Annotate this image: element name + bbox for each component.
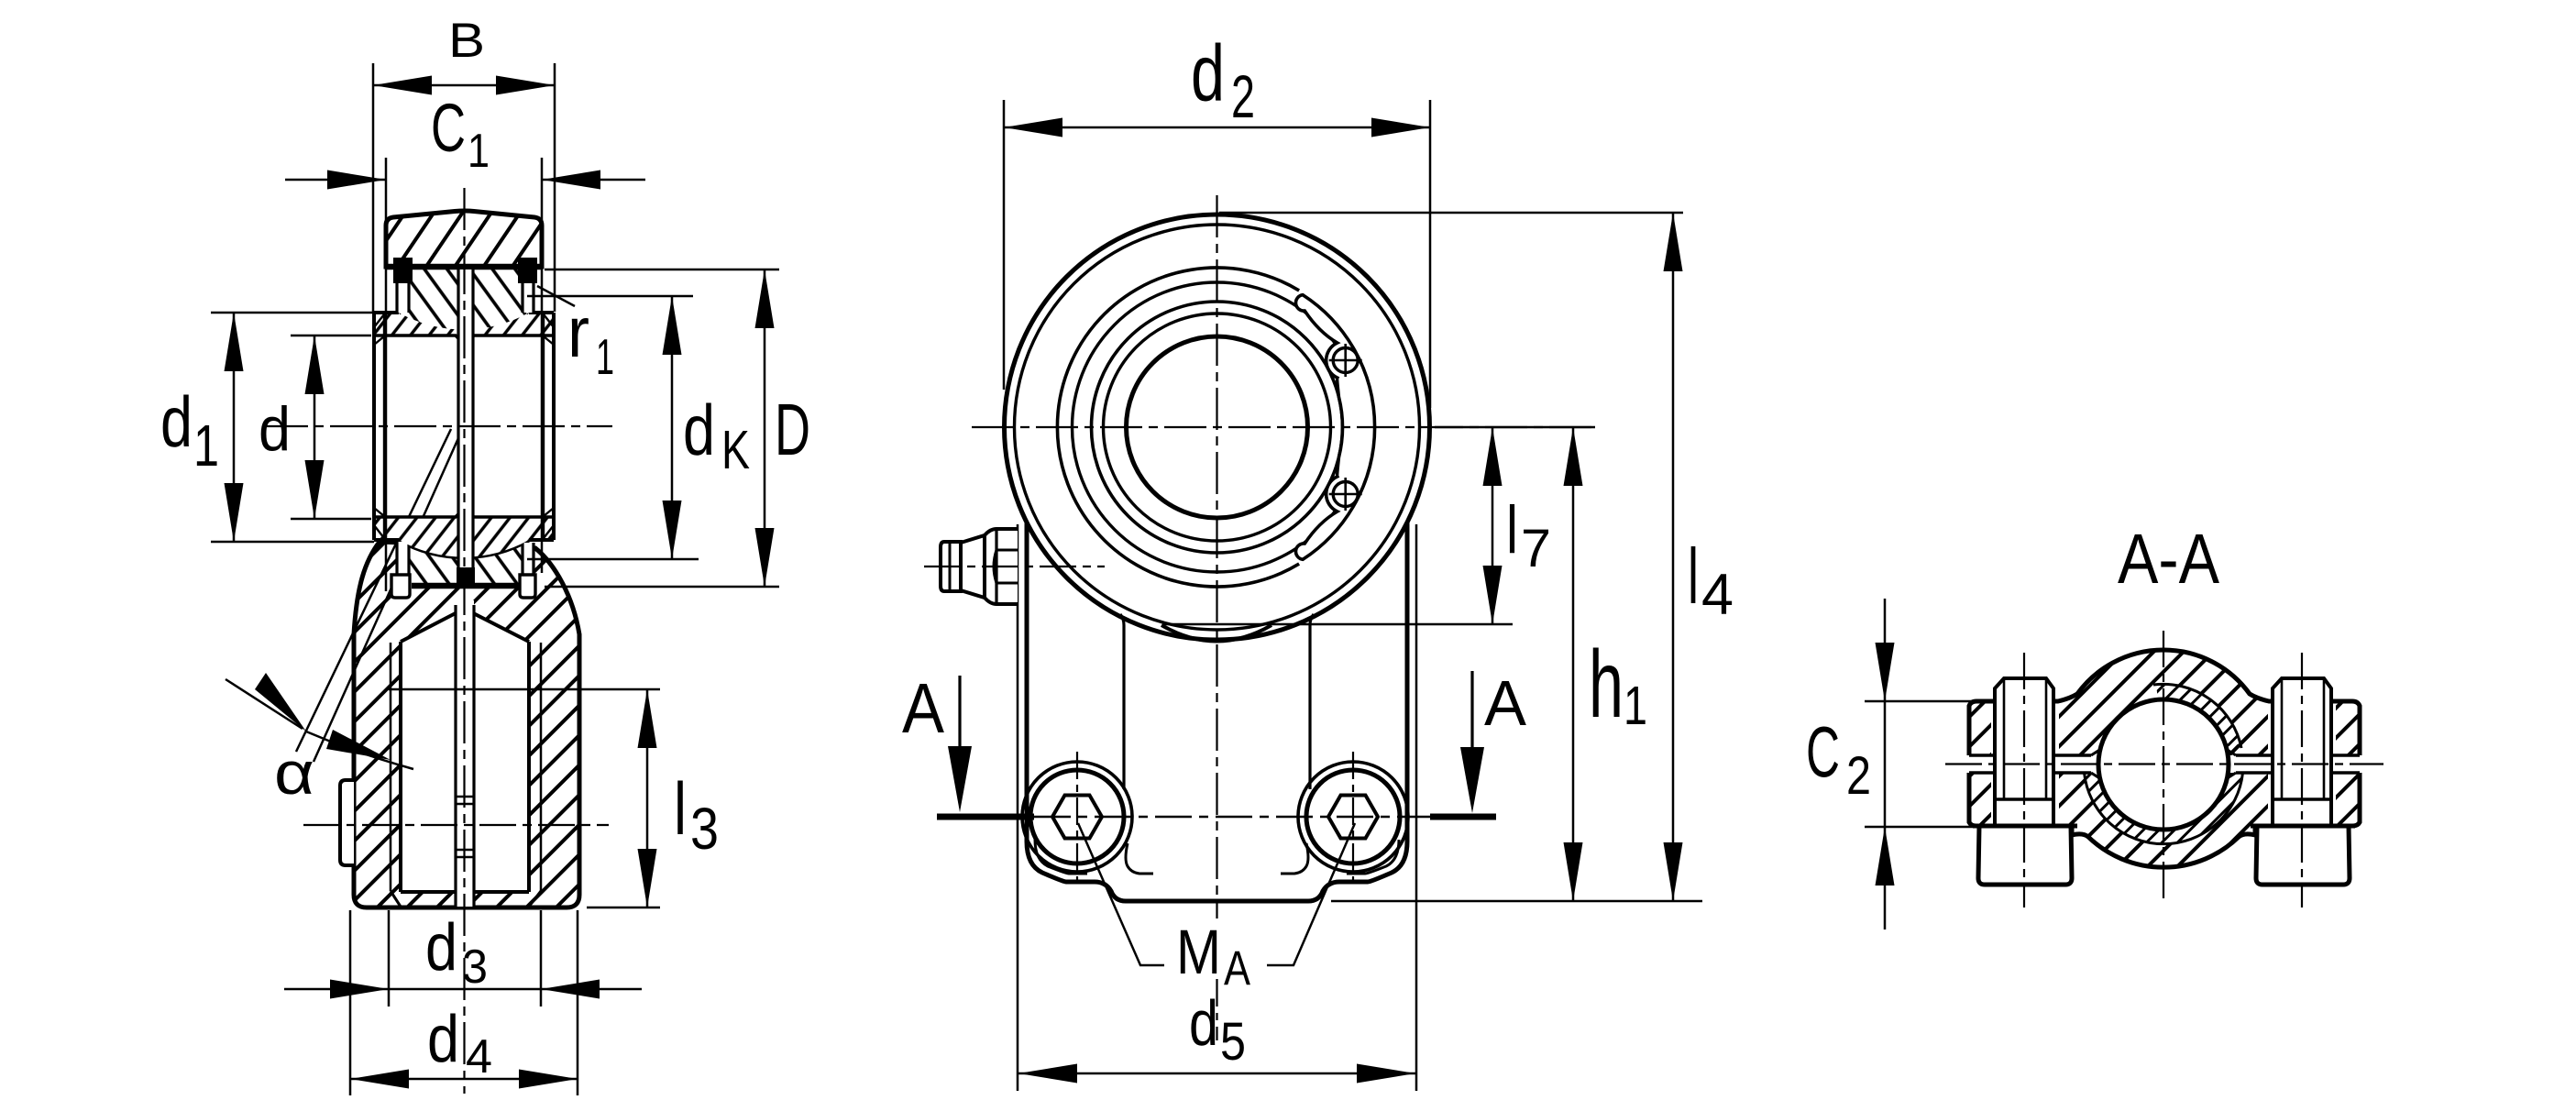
dim d arrow bottom — [305, 460, 325, 519]
dim d3 ext right — [540, 910, 543, 1006]
section line A-A heavy left — [937, 814, 1034, 820]
lube channel — [458, 269, 473, 568]
seal retainer foot bottom-right — [520, 575, 535, 598]
svg-text:A: A — [1484, 667, 1526, 739]
dim C2 arrow bottom — [1876, 827, 1895, 885]
dim d2 ext right — [1429, 100, 1432, 408]
outer ring bottom thick line — [412, 583, 520, 589]
bore bottom edge with groove bump — [374, 511, 554, 517]
alpha cone line 1 — [296, 429, 451, 752]
svg-text:d: d — [160, 381, 193, 462]
dim C2 arrow top — [1876, 643, 1895, 701]
svg-text:3: 3 — [462, 940, 488, 994]
clamp top half hatched — [1969, 650, 2360, 755]
screw top — [1329, 344, 1362, 377]
svg-text:C: C — [1806, 711, 1840, 792]
dim d4 ext right — [577, 910, 579, 1095]
svg-text:l: l — [674, 768, 687, 851]
horizontal centerline eye — [972, 426, 1595, 428]
bolt centerline right — [1352, 752, 1354, 882]
section line A-A heavy right — [1430, 814, 1496, 820]
dim h1 arrow top — [1564, 427, 1583, 486]
spherical seat arc top — [2153, 684, 2241, 748]
thread minor wall left — [399, 642, 402, 892]
svg-text:d: d — [425, 911, 457, 984]
MA leader right — [1267, 823, 1355, 965]
A arrow left — [958, 676, 961, 755]
svg-text:A: A — [902, 669, 945, 748]
eye outer circle — [1005, 214, 1430, 640]
bolt hole left: hex socket — [1052, 796, 1102, 839]
slit tick marks — [456, 796, 474, 798]
vertical centerline — [463, 188, 465, 1094]
svg-text:l: l — [1688, 533, 1699, 621]
outer ring top band — [399, 269, 529, 330]
shank housing section — [354, 542, 579, 907]
svg-text:l: l — [1506, 493, 1518, 567]
thread bottom shoulder — [401, 890, 529, 894]
seal rail top-right — [523, 283, 534, 313]
bolt right head — [2256, 826, 2350, 885]
svg-text:1: 1 — [468, 125, 490, 178]
dim d2 arrow right — [1371, 118, 1430, 137]
thread major line left — [390, 643, 392, 891]
dim B ext line right — [554, 63, 556, 312]
svg-text:A: A — [1224, 941, 1251, 995]
A arrow right — [1470, 671, 1473, 755]
dim l4 arrow bottom — [1664, 842, 1683, 901]
sphere top arc — [399, 295, 529, 313]
svg-text:d: d — [1189, 987, 1218, 1059]
svg-text:1: 1 — [596, 328, 614, 385]
nipple centerline — [924, 566, 1105, 567]
bore entry chamfer left — [391, 891, 401, 907]
bore top edge with lube groove dip — [374, 335, 554, 341]
thread major line right — [540, 643, 543, 891]
screw bottom — [1329, 478, 1362, 511]
dim C1 arrow left — [327, 170, 386, 190]
bolt right centerline — [2301, 653, 2303, 907]
section line A-A dash-dot — [1034, 816, 1430, 818]
body outline — [1027, 522, 1407, 901]
inner ring right chamfer line — [543, 314, 545, 538]
clamp slit — [456, 600, 474, 907]
dim l7 line — [1492, 427, 1494, 624]
svg-text:1: 1 — [1624, 676, 1647, 736]
dim C1 line right — [542, 179, 645, 181]
dim d ext top — [291, 335, 371, 337]
inner ring left chamfer line — [383, 314, 385, 538]
bolt right clearance white — [2268, 687, 2336, 834]
bolt hole left: head circle — [1030, 770, 1124, 863]
dim C2 ext bottom — [1865, 826, 1987, 829]
slit chamfer marks — [2091, 749, 2236, 779]
svg-text:d: d — [427, 1003, 459, 1076]
dim D ext top — [545, 269, 779, 271]
dim d2 line — [1004, 126, 1430, 129]
inner ring shoulder line top — [374, 311, 554, 314]
dim dK line — [671, 296, 674, 559]
alpha cone line 2 — [314, 438, 458, 762]
dim D arrow top — [755, 269, 775, 328]
seal retainer foot bottom-left — [391, 575, 410, 598]
dim d arrow top — [305, 335, 325, 394]
dim d line — [314, 335, 316, 519]
dim C1 line left — [285, 179, 386, 181]
dim B line — [373, 84, 555, 87]
svg-text:2: 2 — [1231, 62, 1255, 130]
dim dK arrow top — [663, 296, 682, 355]
dim d3 ext left — [388, 910, 391, 1006]
bolt right — [2251, 678, 2355, 885]
dim B arrow right — [496, 76, 555, 95]
bolt left head — [1978, 826, 2072, 885]
outer ring inner circle — [1073, 282, 1362, 572]
lube channel plug — [457, 567, 475, 588]
svg-text:1: 1 — [193, 412, 219, 478]
dim l7 arrow top — [1483, 427, 1503, 486]
sphere bottom arc — [399, 540, 529, 557]
bolt left — [1973, 678, 2077, 885]
inner ring face circle — [1104, 313, 1331, 541]
dense spherical seat zone top — [2156, 685, 2240, 747]
bore entry chamfer right — [529, 891, 541, 907]
alpha arrow — [226, 679, 303, 729]
dim d5 arrow left — [1018, 1064, 1077, 1083]
bolt hole left: spotface circle — [1022, 762, 1132, 872]
dim d3 arrow left — [330, 980, 389, 999]
svg-text:M: M — [1176, 917, 1221, 987]
bore circle — [1127, 336, 1308, 518]
bolt centerline left — [1076, 752, 1078, 882]
vertical centerline — [1216, 195, 1217, 918]
rib line right — [1310, 614, 1314, 789]
svg-text:4: 4 — [466, 1030, 492, 1083]
dim d4 ext left — [349, 910, 352, 1095]
dim d4 arrow left — [350, 1070, 409, 1089]
dim B ext line left — [372, 63, 375, 312]
eye block bottom thick line — [386, 264, 542, 270]
dim l7 ext top (centerline ext) — [1435, 426, 1595, 429]
svg-text:D: D — [775, 389, 810, 470]
dim l4 line — [1672, 213, 1675, 901]
svg-text:d: d — [683, 390, 715, 470]
dim d3 arrow right — [541, 980, 600, 999]
svg-text:3: 3 — [690, 796, 719, 862]
dim l3 ext top — [389, 688, 660, 691]
seal rail bottom-left — [397, 542, 409, 594]
bolt left clearance white — [1991, 687, 2059, 834]
seal top-left — [393, 258, 413, 283]
svg-text:B: B — [448, 14, 485, 68]
dim D line — [764, 269, 766, 587]
inner ring bump under eye — [1161, 625, 1271, 642]
body chamfer line right / d5 ext — [1415, 524, 1418, 1091]
svg-text:5: 5 — [1220, 1012, 1246, 1072]
dim D ext bottom — [545, 586, 779, 588]
clamp lug tab (side view) — [340, 780, 354, 865]
outer ring face circle (crescent gap) — [1057, 268, 1299, 587]
thread cone — [401, 609, 529, 642]
bore vertical centerline — [2163, 631, 2164, 903]
bolt hole right: spotface circle — [1298, 762, 1408, 872]
svg-text:K: K — [721, 420, 750, 480]
grease nipple — [924, 529, 1105, 604]
dim l3 line — [646, 689, 649, 907]
horizontal centerline bearing — [266, 425, 612, 427]
dim dK ext bottom — [527, 558, 699, 561]
horizontal centerline bolt hole — [303, 824, 609, 826]
svg-text:2: 2 — [1846, 746, 1871, 806]
svg-text:h: h — [1589, 632, 1624, 738]
bore horizontal centerline — [1945, 763, 2383, 764]
inner ring right face — [552, 313, 556, 540]
clamp outline top half — [1969, 650, 2360, 755]
svg-text:d: d — [259, 394, 291, 464]
dim d1 arrow bottom — [225, 483, 244, 542]
rib line left — [1120, 614, 1124, 789]
clamp outline bottom half — [1969, 773, 2360, 867]
retaining crescent — [1295, 295, 1374, 560]
inner ring left face — [372, 313, 376, 540]
seal top-right — [518, 258, 537, 283]
eye chamfer circle — [1015, 225, 1420, 630]
dim C2 ext top — [1865, 700, 1987, 703]
dim C1 arrow right — [542, 170, 600, 190]
svg-text:7: 7 — [1521, 519, 1551, 578]
slit edge bottom — [1969, 771, 2360, 775]
dim l3 arrow bottom — [638, 849, 657, 907]
r1 leader — [537, 286, 575, 306]
bolt left centerline — [2023, 653, 2025, 907]
dim d2 ext left — [1003, 100, 1006, 390]
dim d4 line — [350, 1078, 578, 1081]
clamp bottom half hatched — [1969, 773, 2360, 867]
dense spherical seat zone bottom — [2085, 773, 2243, 844]
svg-text:α: α — [274, 739, 314, 807]
dim l4 arrow top — [1664, 213, 1683, 271]
dim d3 line — [284, 988, 389, 991]
dim l3 ext bottom — [587, 907, 660, 909]
inner ring chamfer diagonals — [374, 314, 554, 538]
body corner inner fillet left — [1035, 840, 1087, 874]
bore circle white — [2098, 699, 2229, 830]
body chamfer line left / d5 ext — [1017, 524, 1019, 1091]
dim d1 ext bottom — [211, 541, 374, 544]
threaded bore pocket — [401, 609, 529, 892]
dim d1 line — [233, 313, 236, 542]
rib line left lower stub — [1126, 843, 1153, 874]
dim l4 ext top — [1219, 212, 1683, 214]
dim D arrow bottom — [755, 528, 775, 587]
thread minor wall right — [527, 642, 531, 892]
seal rail bottom-right — [523, 543, 534, 594]
body corner inner fillet right — [1347, 840, 1399, 874]
seal rail top-left — [397, 283, 409, 313]
dim C1 ext line left — [385, 158, 388, 591]
slit edge top — [1969, 753, 2360, 757]
dim B arrow left — [373, 76, 432, 95]
svg-text:C: C — [431, 90, 466, 166]
MA leader left — [1078, 823, 1164, 965]
svg-text:d: d — [1191, 29, 1225, 118]
dim l7 ext bottom — [1162, 623, 1513, 626]
bolt hole right: hex socket — [1328, 796, 1378, 839]
dim d4 arrow right — [519, 1070, 578, 1089]
inner ring shoulder line bottom — [374, 538, 554, 542]
dim l3 arrow top — [638, 689, 657, 748]
dim d5 line — [1018, 1072, 1415, 1075]
dim d1 ext top — [211, 312, 374, 314]
dim d1 arrow top — [225, 313, 244, 371]
inner ring top band — [374, 295, 554, 335]
spherical seat arc bottom — [2085, 773, 2243, 844]
dim d ext bottom — [291, 518, 371, 521]
outer ring bottom band — [399, 540, 529, 586]
svg-text:4: 4 — [1701, 563, 1734, 627]
dim C2 line — [1884, 599, 1887, 929]
dim d2 arrow left — [1004, 118, 1062, 137]
rib line right lower stub — [1281, 843, 1308, 874]
dim dK ext top — [527, 295, 693, 298]
dim C1 ext line right — [541, 158, 544, 573]
svg-text:A-A: A-A — [2118, 520, 2220, 599]
eye ring block — [386, 211, 542, 267]
dim h1 arrow bottom — [1564, 842, 1583, 901]
dim l4/h1 ext bottom — [1331, 900, 1702, 903]
dim l7 arrow bottom — [1483, 566, 1503, 624]
dim h1 line — [1572, 427, 1575, 901]
dim dK arrow bottom — [663, 500, 682, 559]
dim d5 arrow right — [1357, 1064, 1415, 1083]
inner ring bottom band — [374, 517, 554, 557]
bolt hole right: head circle — [1306, 770, 1400, 863]
seal circle — [1092, 302, 1343, 553]
